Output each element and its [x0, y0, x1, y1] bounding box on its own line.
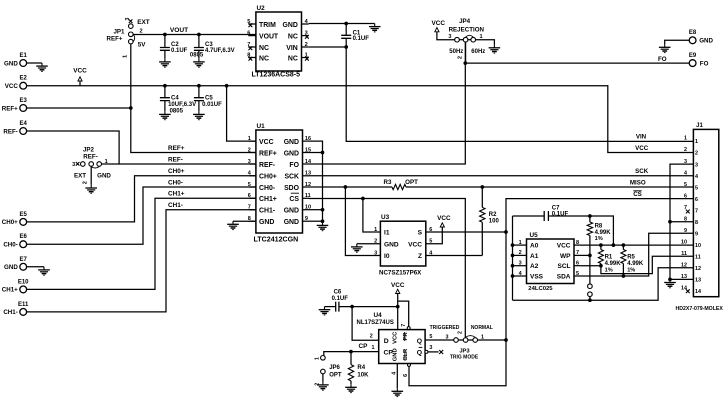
svg-text:REF+: REF+	[168, 145, 185, 152]
svg-text:7: 7	[248, 205, 251, 211]
svg-text:4.99K: 4.99K	[627, 261, 644, 267]
svg-text:24LC025: 24LC025	[528, 286, 553, 292]
svg-text:NC: NC	[288, 33, 298, 40]
svg-text:GND: GND	[284, 208, 299, 215]
svg-text:E3: E3	[20, 98, 28, 104]
svg-text:R5: R5	[627, 255, 635, 261]
svg-text:E1: E1	[20, 53, 28, 59]
svg-text:D: D	[384, 338, 389, 345]
svg-text:E10: E10	[18, 279, 29, 285]
svg-text:REJECTION: REJECTION	[449, 27, 485, 34]
svg-text:0805: 0805	[190, 53, 204, 59]
svg-text:1: 1	[123, 55, 129, 58]
svg-text:CH1-: CH1-	[259, 208, 276, 215]
svg-text:5: 5	[576, 271, 579, 277]
svg-text:CH1-: CH1-	[3, 309, 17, 316]
svg-text:3: 3	[448, 34, 451, 40]
svg-text:8: 8	[695, 220, 698, 226]
svg-text:U5: U5	[530, 232, 539, 239]
svg-text:0.1UF: 0.1UF	[171, 48, 188, 54]
svg-text:Z: Z	[418, 253, 422, 260]
svg-text:3: 3	[248, 159, 251, 165]
svg-text:VCC: VCC	[5, 83, 19, 90]
svg-text:1: 1	[314, 357, 320, 360]
svg-text:1: 1	[481, 334, 484, 340]
svg-text:SDA: SDA	[557, 274, 571, 281]
svg-text:J1: J1	[696, 123, 703, 129]
svg-text:C6: C6	[334, 290, 342, 296]
svg-text:U2: U2	[257, 5, 266, 12]
svg-text:VCC: VCC	[73, 68, 87, 75]
svg-text:10UF,6.3V: 10UF,6.3V	[168, 102, 196, 108]
svg-text:VIN: VIN	[636, 134, 647, 141]
svg-text:3: 3	[72, 162, 75, 168]
svg-text:FO: FO	[700, 60, 709, 67]
svg-text:7: 7	[695, 208, 698, 214]
svg-text:VCC: VCC	[259, 139, 274, 146]
svg-text:REF+: REF+	[107, 35, 123, 42]
svg-text:CP: CP	[359, 343, 369, 350]
svg-text:13: 13	[695, 278, 701, 284]
svg-text:JP4: JP4	[459, 18, 471, 25]
svg-text:50Hz: 50Hz	[449, 49, 463, 55]
svg-text:HD2X7-079-MOLEX: HD2X7-079-MOLEX	[676, 306, 724, 312]
svg-text:6: 6	[684, 193, 687, 199]
svg-text:CH1-: CH1-	[168, 202, 183, 209]
svg-text:VCC: VCC	[635, 145, 649, 152]
svg-text:3: 3	[519, 261, 522, 267]
svg-text:PR: PR	[403, 332, 409, 341]
svg-text:REF-: REF-	[259, 162, 276, 169]
svg-text:R1: R1	[605, 255, 613, 261]
svg-text:GND: GND	[284, 139, 299, 146]
svg-text:LT1236ACS8-5: LT1236ACS8-5	[252, 72, 301, 79]
svg-text:VCC: VCC	[437, 215, 451, 222]
svg-text:E6: E6	[20, 234, 28, 240]
svg-text:GND: GND	[699, 38, 713, 45]
svg-text:E11: E11	[18, 302, 29, 308]
svg-text:0.01UF: 0.01UF	[202, 102, 222, 108]
svg-text:1: 1	[519, 240, 522, 246]
svg-text:5: 5	[248, 182, 251, 188]
svg-text:3: 3	[446, 334, 449, 340]
svg-text:OPT: OPT	[329, 372, 342, 378]
svg-text:LTC2412CGN: LTC2412CGN	[254, 236, 299, 244]
svg-text:TRIM: TRIM	[259, 22, 276, 29]
svg-text:1: 1	[684, 136, 687, 142]
svg-text:7: 7	[576, 250, 579, 256]
svg-text:TRIGGERED: TRIGGERED	[430, 325, 460, 331]
svg-text:R4: R4	[357, 365, 365, 371]
svg-text:SCK: SCK	[635, 168, 649, 175]
svg-text:VOUT: VOUT	[259, 33, 279, 40]
svg-text:WP: WP	[560, 253, 571, 260]
svg-text:GND: GND	[259, 219, 274, 226]
svg-text:A2: A2	[530, 263, 539, 270]
svg-text:VIN: VIN	[286, 45, 298, 52]
svg-text:I1: I1	[384, 230, 390, 237]
svg-text:CH0-: CH0-	[3, 242, 17, 249]
svg-text:R2: R2	[489, 212, 497, 218]
svg-text:11: 11	[695, 255, 701, 261]
svg-text:C4: C4	[171, 96, 179, 102]
svg-text:I0: I0	[384, 253, 390, 260]
svg-text:3: 3	[695, 162, 698, 168]
svg-text:CH1+: CH1+	[2, 287, 18, 294]
svg-text:VSS: VSS	[530, 274, 544, 281]
svg-text:VCC: VCC	[392, 331, 398, 344]
svg-text:100: 100	[489, 218, 500, 224]
svg-text:6: 6	[247, 31, 250, 37]
svg-text:VCC: VCC	[408, 241, 422, 248]
svg-text:6: 6	[403, 374, 409, 377]
svg-text:6: 6	[695, 197, 698, 203]
svg-text:CH0-: CH0-	[259, 185, 276, 192]
svg-text:U3: U3	[381, 214, 390, 221]
svg-text:2: 2	[248, 147, 251, 153]
svg-text:10: 10	[681, 239, 687, 245]
svg-text:U1: U1	[257, 123, 266, 130]
svg-text:1: 1	[372, 345, 375, 351]
svg-text:JP6: JP6	[329, 365, 340, 371]
svg-text:2: 2	[370, 334, 373, 340]
svg-text:9: 9	[305, 216, 308, 222]
svg-text:VCC: VCC	[557, 243, 571, 250]
svg-text:GND: GND	[97, 172, 111, 179]
svg-text:2: 2	[684, 147, 687, 153]
svg-text:0.1UF: 0.1UF	[552, 211, 569, 217]
svg-text:1%: 1%	[605, 267, 613, 273]
svg-text:6: 6	[248, 193, 251, 199]
svg-text:NL17SZ74US: NL17SZ74US	[357, 320, 394, 326]
svg-text:E8: E8	[689, 30, 697, 36]
svg-text:VCC: VCC	[432, 20, 446, 27]
svg-text:SDO: SDO	[284, 185, 300, 192]
svg-text:GND: GND	[392, 348, 398, 361]
svg-text:R8: R8	[595, 224, 603, 230]
svg-text:JP3: JP3	[459, 348, 470, 354]
svg-text:NC: NC	[288, 55, 298, 62]
svg-text:NC7SZ157P6X: NC7SZ157P6X	[379, 269, 422, 276]
svg-text:5V: 5V	[138, 42, 146, 49]
svg-text:2: 2	[695, 151, 698, 157]
svg-text:NC: NC	[259, 45, 269, 52]
svg-text:0805: 0805	[170, 108, 184, 114]
svg-text:3: 3	[429, 345, 432, 351]
svg-text:E5: E5	[20, 212, 28, 218]
svg-text:11: 11	[681, 251, 687, 257]
svg-text:4: 4	[695, 174, 698, 180]
svg-text:5: 5	[429, 334, 432, 340]
svg-text:9: 9	[684, 228, 687, 234]
svg-text:4.7UF,6.3V: 4.7UF,6.3V	[205, 48, 235, 54]
svg-text:GND: GND	[4, 264, 18, 271]
svg-text:REF-: REF-	[168, 156, 183, 163]
svg-text:OPT: OPT	[405, 179, 418, 186]
svg-text:GND: GND	[384, 241, 399, 248]
svg-text:R3: R3	[384, 179, 392, 186]
svg-text:CH1+: CH1+	[168, 191, 185, 198]
svg-text:12: 12	[695, 266, 701, 272]
svg-text:8: 8	[576, 240, 579, 246]
svg-text:REF-: REF-	[83, 153, 97, 160]
svg-text:14: 14	[681, 286, 687, 292]
svg-text:1%: 1%	[627, 267, 635, 273]
svg-text:0.1UF: 0.1UF	[353, 36, 370, 42]
svg-text:REF+: REF+	[2, 105, 18, 112]
svg-text:6: 6	[576, 261, 579, 267]
svg-text:Q: Q	[417, 350, 422, 357]
svg-text:C5: C5	[205, 96, 213, 102]
svg-text:VCC: VCC	[391, 282, 405, 289]
svg-text:E7: E7	[20, 257, 28, 263]
svg-text:3: 3	[125, 17, 131, 20]
svg-text:10K: 10K	[357, 372, 369, 378]
svg-text:CH0+: CH0+	[168, 168, 185, 175]
svg-text:TRIG MODE: TRIG MODE	[450, 355, 479, 361]
svg-text:2: 2	[305, 42, 308, 48]
svg-text:4: 4	[391, 372, 397, 375]
svg-text:1: 1	[480, 34, 483, 40]
svg-text:EXT: EXT	[74, 172, 86, 179]
svg-text:E9: E9	[689, 53, 697, 59]
svg-text:FO: FO	[658, 56, 667, 63]
svg-text:EXT: EXT	[137, 19, 150, 26]
svg-text:NC: NC	[259, 55, 269, 62]
svg-text:GND: GND	[284, 219, 299, 226]
svg-text:U4: U4	[374, 312, 383, 319]
svg-text:A1: A1	[530, 253, 539, 260]
svg-text:E4: E4	[20, 121, 28, 127]
svg-text:CH0+: CH0+	[2, 219, 18, 226]
svg-text:A0: A0	[530, 243, 539, 250]
svg-text:CH0-: CH0-	[168, 179, 183, 186]
svg-text:REF+: REF+	[259, 150, 277, 157]
svg-text:1: 1	[695, 139, 698, 145]
svg-text:MISO: MISO	[630, 180, 646, 187]
svg-text:CH1+: CH1+	[259, 196, 277, 203]
svg-text:2: 2	[83, 181, 89, 184]
svg-text:GND: GND	[282, 22, 297, 29]
svg-text:2: 2	[314, 383, 320, 386]
svg-text:2: 2	[519, 250, 522, 256]
svg-text:2: 2	[139, 28, 142, 34]
svg-text:CS: CS	[289, 196, 299, 203]
svg-text:1%: 1%	[595, 236, 603, 242]
svg-text:10: 10	[695, 243, 701, 249]
svg-text:GND: GND	[4, 60, 18, 67]
svg-text:4.99K: 4.99K	[605, 261, 622, 267]
svg-text:REF-: REF-	[3, 128, 17, 135]
svg-text:4.99K: 4.99K	[595, 230, 612, 236]
svg-text:VOUT: VOUT	[170, 27, 188, 34]
svg-text:SCK: SCK	[284, 174, 299, 181]
svg-text:2: 2	[458, 56, 464, 59]
svg-text:5: 5	[684, 182, 687, 188]
svg-text:FO: FO	[289, 162, 299, 169]
svg-text:7: 7	[401, 324, 407, 327]
svg-text:14: 14	[695, 289, 701, 295]
svg-text:SCL: SCL	[558, 263, 571, 270]
svg-text:S: S	[418, 230, 423, 237]
svg-text:4: 4	[684, 170, 687, 176]
svg-text:60Hz: 60Hz	[471, 49, 485, 55]
svg-text:GND: GND	[284, 150, 299, 157]
svg-text:12: 12	[681, 263, 687, 269]
svg-text:JP2: JP2	[83, 146, 95, 153]
svg-text:Q: Q	[417, 338, 422, 345]
svg-text:E2: E2	[20, 76, 28, 82]
svg-text:CS: CS	[633, 191, 642, 198]
svg-text:9: 9	[695, 231, 698, 237]
svg-text:0.1UF: 0.1UF	[332, 296, 349, 302]
svg-text:CH0+: CH0+	[259, 174, 277, 181]
svg-text:5: 5	[695, 185, 698, 191]
svg-text:NORMAL: NORMAL	[471, 325, 493, 331]
svg-text:2: 2	[457, 331, 463, 334]
svg-text:CLR: CLR	[403, 348, 409, 361]
